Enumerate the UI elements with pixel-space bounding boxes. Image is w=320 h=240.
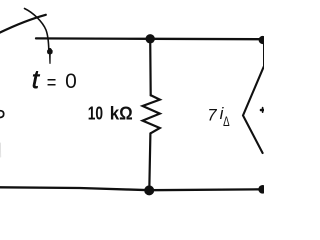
plus sign inside diamond (clipped) xyxy=(261,109,265,112)
node: bottom junction dot xyxy=(144,185,154,195)
wire: resistor top lead xyxy=(149,39,152,95)
svg-text:0: 0 xyxy=(65,70,77,93)
wire bottom horizontal xyxy=(0,187,263,190)
svg-text:7: 7 xyxy=(207,106,217,124)
switch SW1 arrowhead xyxy=(47,48,52,63)
switch SW1 blade xyxy=(0,15,46,34)
node: bottom right dot xyxy=(258,185,267,194)
svg-text:10: 10 xyxy=(88,103,103,124)
switch SW1 motion arc xyxy=(25,9,49,51)
dependent source U1 diamond (clipped at right edge) xyxy=(243,67,264,154)
svg-text:Δ: Δ xyxy=(223,114,230,129)
svg-text:=: = xyxy=(47,72,57,94)
resistor R1 10 kOhm zigzag xyxy=(143,95,160,133)
wire stub to diamond top xyxy=(263,42,265,67)
node: top junction dot xyxy=(146,34,155,43)
svg-text:kΩ: kΩ xyxy=(110,103,133,124)
wire top horizontal xyxy=(36,37,262,40)
faint mark left edge xyxy=(0,143,2,157)
node: top right dot xyxy=(259,36,267,44)
partial glyph o at left edge (clipped label) xyxy=(0,111,4,118)
wire: resistor bottom lead xyxy=(149,133,150,190)
svg-text:t: t xyxy=(32,64,41,94)
